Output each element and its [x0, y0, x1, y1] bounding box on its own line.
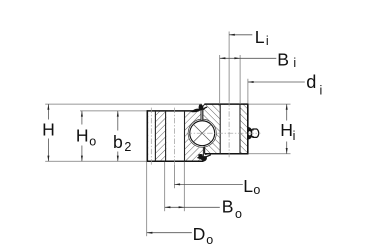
svg-text:o: o — [235, 207, 242, 221]
raceway void around ball — [188, 119, 216, 147]
extension line inner-top left — [45, 103, 202, 105]
bottom split gap lines — [202, 147, 204, 156]
dimension Bo — [165, 206, 220, 208]
svg-text:o: o — [89, 134, 96, 148]
dimension di — [248, 81, 305, 83]
dimension Li — [229, 34, 252, 36]
extension line Li — [228, 32, 230, 102]
extension line Bo left — [164, 162, 166, 211]
outer ring body (hatched) — [147, 111, 203, 161]
extension line inner-bottom right — [248, 153, 290, 155]
svg-text:L: L — [243, 176, 253, 196]
ball contact cross — [194, 125, 211, 142]
svg-text:d: d — [306, 72, 316, 92]
svg-text:B: B — [277, 49, 289, 69]
outer ring hole edge lines — [154, 111, 156, 161]
dimension b2 — [117, 111, 119, 131]
extension line Bi left — [219, 55, 221, 104]
outer ring outline — [146, 110, 148, 161]
svg-text:i: i — [293, 56, 296, 70]
svg-text:D: D — [193, 224, 206, 244]
dimension Do — [147, 232, 192, 234]
top seal — [191, 109, 200, 113]
dimension Ho — [81, 111, 83, 125]
svg-text:H: H — [42, 120, 55, 140]
svg-text:i: i — [293, 129, 296, 143]
extension line Bo right — [183, 162, 185, 211]
top split gap lines — [200, 108, 202, 120]
dimension Lo — [174, 183, 242, 185]
inner ring bolt hole (void) — [220, 105, 240, 153]
top split gap white channel — [201, 105, 203, 121]
extension line Lo — [173, 165, 175, 189]
outer ring bottom-right corner step — [203, 156, 205, 161]
centerline outer small hole — [150, 108, 152, 165]
inner ring outline — [204, 103, 248, 105]
svg-text:o: o — [206, 233, 213, 247]
svg-text:o: o — [253, 183, 260, 197]
raceway arc — [188, 119, 216, 147]
dimension Bi — [220, 57, 277, 59]
svg-text:H: H — [76, 125, 89, 145]
outer ring bolt hole large (void) — [166, 112, 184, 161]
svg-text:B: B — [222, 196, 234, 216]
dimension H — [47, 104, 49, 119]
centerline inner hole — [228, 101, 230, 157]
ball — [190, 121, 215, 146]
svg-text:i: i — [320, 83, 323, 97]
centerline outer large hole — [173, 108, 175, 165]
svg-text:b: b — [113, 132, 123, 152]
extension line inner-top right — [248, 103, 290, 105]
extension line Do — [146, 162, 148, 236]
inner ring body (hatched) — [203, 104, 248, 154]
svg-text:L: L — [255, 27, 265, 47]
outer ring bolt hole small (void) — [148, 112, 155, 161]
svg-text:2: 2 — [124, 140, 131, 154]
inner ring hole edge lines — [219, 104, 221, 154]
extension line outer-top left — [80, 110, 147, 112]
extension line outer-bottom left — [45, 160, 146, 162]
bottom split gap white channel — [204, 146, 205, 154]
extension line Bi right — [239, 55, 241, 104]
centerline horizontal — [187, 132, 261, 134]
svg-text:H: H — [280, 120, 293, 140]
extension line di — [247, 79, 249, 104]
svg-text:i: i — [266, 34, 269, 48]
grease nipple U1 — [248, 127, 252, 140]
bottom seal — [197, 154, 211, 161]
dimension Hi — [286, 104, 288, 120]
